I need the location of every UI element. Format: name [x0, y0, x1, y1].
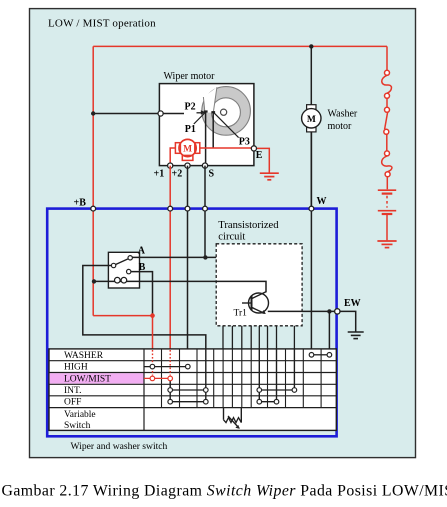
- node S: [203, 206, 208, 211]
- connector circle 2: [385, 93, 390, 98]
- P1 pointer line: [194, 113, 205, 125]
- wire: A line to transistor box: [132, 256, 216, 258]
- node +B: [91, 206, 96, 211]
- ground (battery, red): [377, 241, 396, 248]
- cam plate notch: [203, 87, 217, 112]
- svg-text:W: W: [317, 196, 327, 207]
- svg-text:Gambar 2.17 Wiring Diagram Swi: Gambar 2.17 Wiring Diagram Switch Wiper …: [2, 483, 447, 500]
- svg-text:Wiper and washer switch: Wiper and washer switch: [71, 441, 168, 452]
- table body: [49, 349, 336, 431]
- node EW on blue edge: [335, 309, 340, 314]
- node W: [309, 206, 314, 211]
- svg-text:P1: P1: [185, 124, 196, 135]
- svg-text:LOW/MIST: LOW/MIST: [64, 374, 111, 384]
- variable arrow: [228, 416, 239, 428]
- svg-text:OFF: OFF: [64, 398, 81, 408]
- wire: motor to +1 terminal: [170, 148, 175, 166]
- wire: red +B vertical main feed: [92, 46, 94, 315]
- table grid verticals: [162, 349, 322, 408]
- relay box: [108, 252, 139, 288]
- label column divider: [143, 349, 145, 431]
- connector circle 5: [385, 151, 390, 156]
- connector circle 3: [385, 107, 390, 112]
- contact S riser (P1) inside box: [205, 111, 207, 166]
- wire: pivot column to OFF: [205, 349, 207, 402]
- wiper motor box: [159, 84, 254, 166]
- row lines: [49, 361, 336, 408]
- wire: washer motor to W node: [310, 132, 312, 209]
- node: S terminal: [202, 163, 207, 168]
- base lead: [242, 302, 252, 304]
- node: wiper box left edge: [158, 111, 163, 116]
- wire: +1 column through INT to OFF: [169, 381, 171, 402]
- wire: red top horizontal supply: [93, 45, 387, 47]
- brush right: [195, 143, 200, 154]
- node +2: [185, 206, 190, 211]
- svg-text:Wiper motor: Wiper motor: [164, 71, 216, 82]
- WASHER row contacts: [314, 354, 327, 356]
- red dashed feeds in table: [153, 350, 171, 375]
- wire to battery: [386, 177, 388, 190]
- wire: coil line from +B to transistor collector: [94, 281, 266, 292]
- svg-text:+2: +2: [172, 169, 183, 180]
- wire: emitter to EW node: [268, 310, 338, 312]
- washer motor brush top: [307, 105, 316, 109]
- battery (red): [378, 190, 396, 240]
- node: +2 terminal: [185, 163, 190, 168]
- svg-text:INT.: INT.: [64, 386, 82, 396]
- wire: col 276 to OFF: [276, 349, 278, 402]
- wire: E node to ground: [254, 148, 269, 172]
- svg-text:motor: motor: [328, 121, 353, 132]
- relay coil loops: [115, 277, 121, 283]
- variable resistor: [224, 408, 242, 423]
- fuse curl 1: [382, 75, 392, 93]
- connector circle 4: [384, 129, 389, 134]
- collector lead: [252, 292, 267, 299]
- svg-text:LOW / MIST operation: LOW / MIST operation: [48, 17, 156, 29]
- wire: S down to A-line: [204, 166, 206, 258]
- wire: red right drop to fuse chain: [386, 46, 388, 70]
- ground (wiper E, red): [260, 173, 279, 180]
- pink row highlight: [50, 373, 144, 383]
- svg-text:+B: +B: [74, 198, 87, 209]
- junction dot emitter/washer-return: [327, 309, 331, 313]
- wire: B line right and down: [131, 272, 153, 316]
- svg-text:+1: +1: [154, 169, 165, 180]
- transistor dashed box: [216, 244, 302, 326]
- pivot contact: [111, 263, 115, 267]
- svg-text:Switch: Switch: [64, 421, 91, 431]
- wire: pivot line left-down-right to table: [83, 266, 206, 350]
- fusible link curl: [382, 156, 392, 172]
- base bar: [251, 296, 253, 311]
- wire: washer feed upper: [310, 46, 312, 105]
- OFF row contacts: [173, 401, 275, 403]
- ground (EW): [348, 332, 364, 339]
- svg-text:M: M: [307, 115, 316, 125]
- wire: col 259 to OFF: [258, 349, 260, 402]
- washer motor body: [302, 109, 321, 128]
- ignition switch blade: [385, 112, 388, 129]
- svg-text:M: M: [183, 144, 192, 154]
- wire segment: [386, 134, 388, 151]
- wire: red horizontal to B column: [93, 315, 152, 317]
- contact A circle: [128, 256, 132, 260]
- brush left: [175, 143, 180, 154]
- HIGH row contacts: [144, 366, 186, 368]
- svg-text:E: E: [256, 150, 263, 161]
- transistor Tr1: [249, 293, 269, 313]
- svg-text:P2: P2: [185, 102, 196, 113]
- wire segment: [386, 98, 388, 107]
- wire: EW to ground: [340, 311, 356, 331]
- relay arm: [116, 259, 129, 265]
- wire: motor to E node: [200, 147, 254, 149]
- contact pads: [204, 110, 208, 112]
- cam plate (gray annulus): [202, 87, 251, 136]
- svg-text:P3: P3: [239, 137, 250, 148]
- connector circle 6: [385, 172, 390, 177]
- node: +1 terminal: [168, 163, 173, 168]
- wiper and washer switch box (blue): [47, 209, 336, 437]
- node: E on box right edge: [251, 146, 256, 151]
- svg-text:Tr1: Tr1: [234, 309, 248, 319]
- svg-text:Washer: Washer: [328, 109, 358, 120]
- motor M body: [179, 139, 196, 156]
- svg-text:EW: EW: [344, 298, 361, 309]
- contact riser to motor + wire (P3 side): [212, 112, 214, 148]
- connector circle 1: [385, 70, 390, 75]
- motor foot: [182, 155, 193, 160]
- wire: +1 red down to table: [169, 166, 171, 350]
- svg-text:S: S: [209, 169, 215, 180]
- svg-text:Variable: Variable: [64, 410, 96, 420]
- contact B circle: [127, 269, 131, 273]
- wire: red B column down to table: [152, 316, 154, 350]
- junction dot red: [150, 313, 155, 318]
- wire: feed from +B line into wiper box: [93, 113, 184, 115]
- wire: washer return down to table: [328, 311, 330, 354]
- P3 pointer line: [214, 112, 239, 137]
- svg-text:HIGH: HIGH: [64, 363, 88, 373]
- cam inner circle: [211, 98, 240, 127]
- wire: collector link inside box: [216, 281, 266, 292]
- svg-text:A: A: [138, 246, 146, 257]
- node +1: [168, 206, 173, 211]
- INT row contacts: [173, 389, 293, 391]
- wire: +2 down to table: [187, 166, 189, 367]
- diagram background panel: [30, 9, 416, 458]
- junction dot washer feed on red line: [309, 44, 313, 48]
- svg-text:circuit: circuit: [218, 231, 245, 242]
- svg-text:WASHER: WASHER: [64, 351, 104, 361]
- P2 arrow to contact: [197, 112, 203, 114]
- junction dot on +B red line: [91, 111, 95, 115]
- wire: col 294 to INT: [293, 349, 295, 390]
- cam center pin: [221, 109, 227, 115]
- junction dot coil on +B red line: [92, 279, 96, 283]
- emitter lead with arrow: [252, 307, 265, 313]
- svg-text:Transistorized: Transistorized: [218, 220, 279, 231]
- wire: W down to washer contact: [310, 132, 312, 355]
- junction dot: A line to S wire: [203, 255, 207, 259]
- LOW/MIST row contacts (red): [144, 377, 168, 379]
- washer motor brush bottom: [307, 128, 316, 132]
